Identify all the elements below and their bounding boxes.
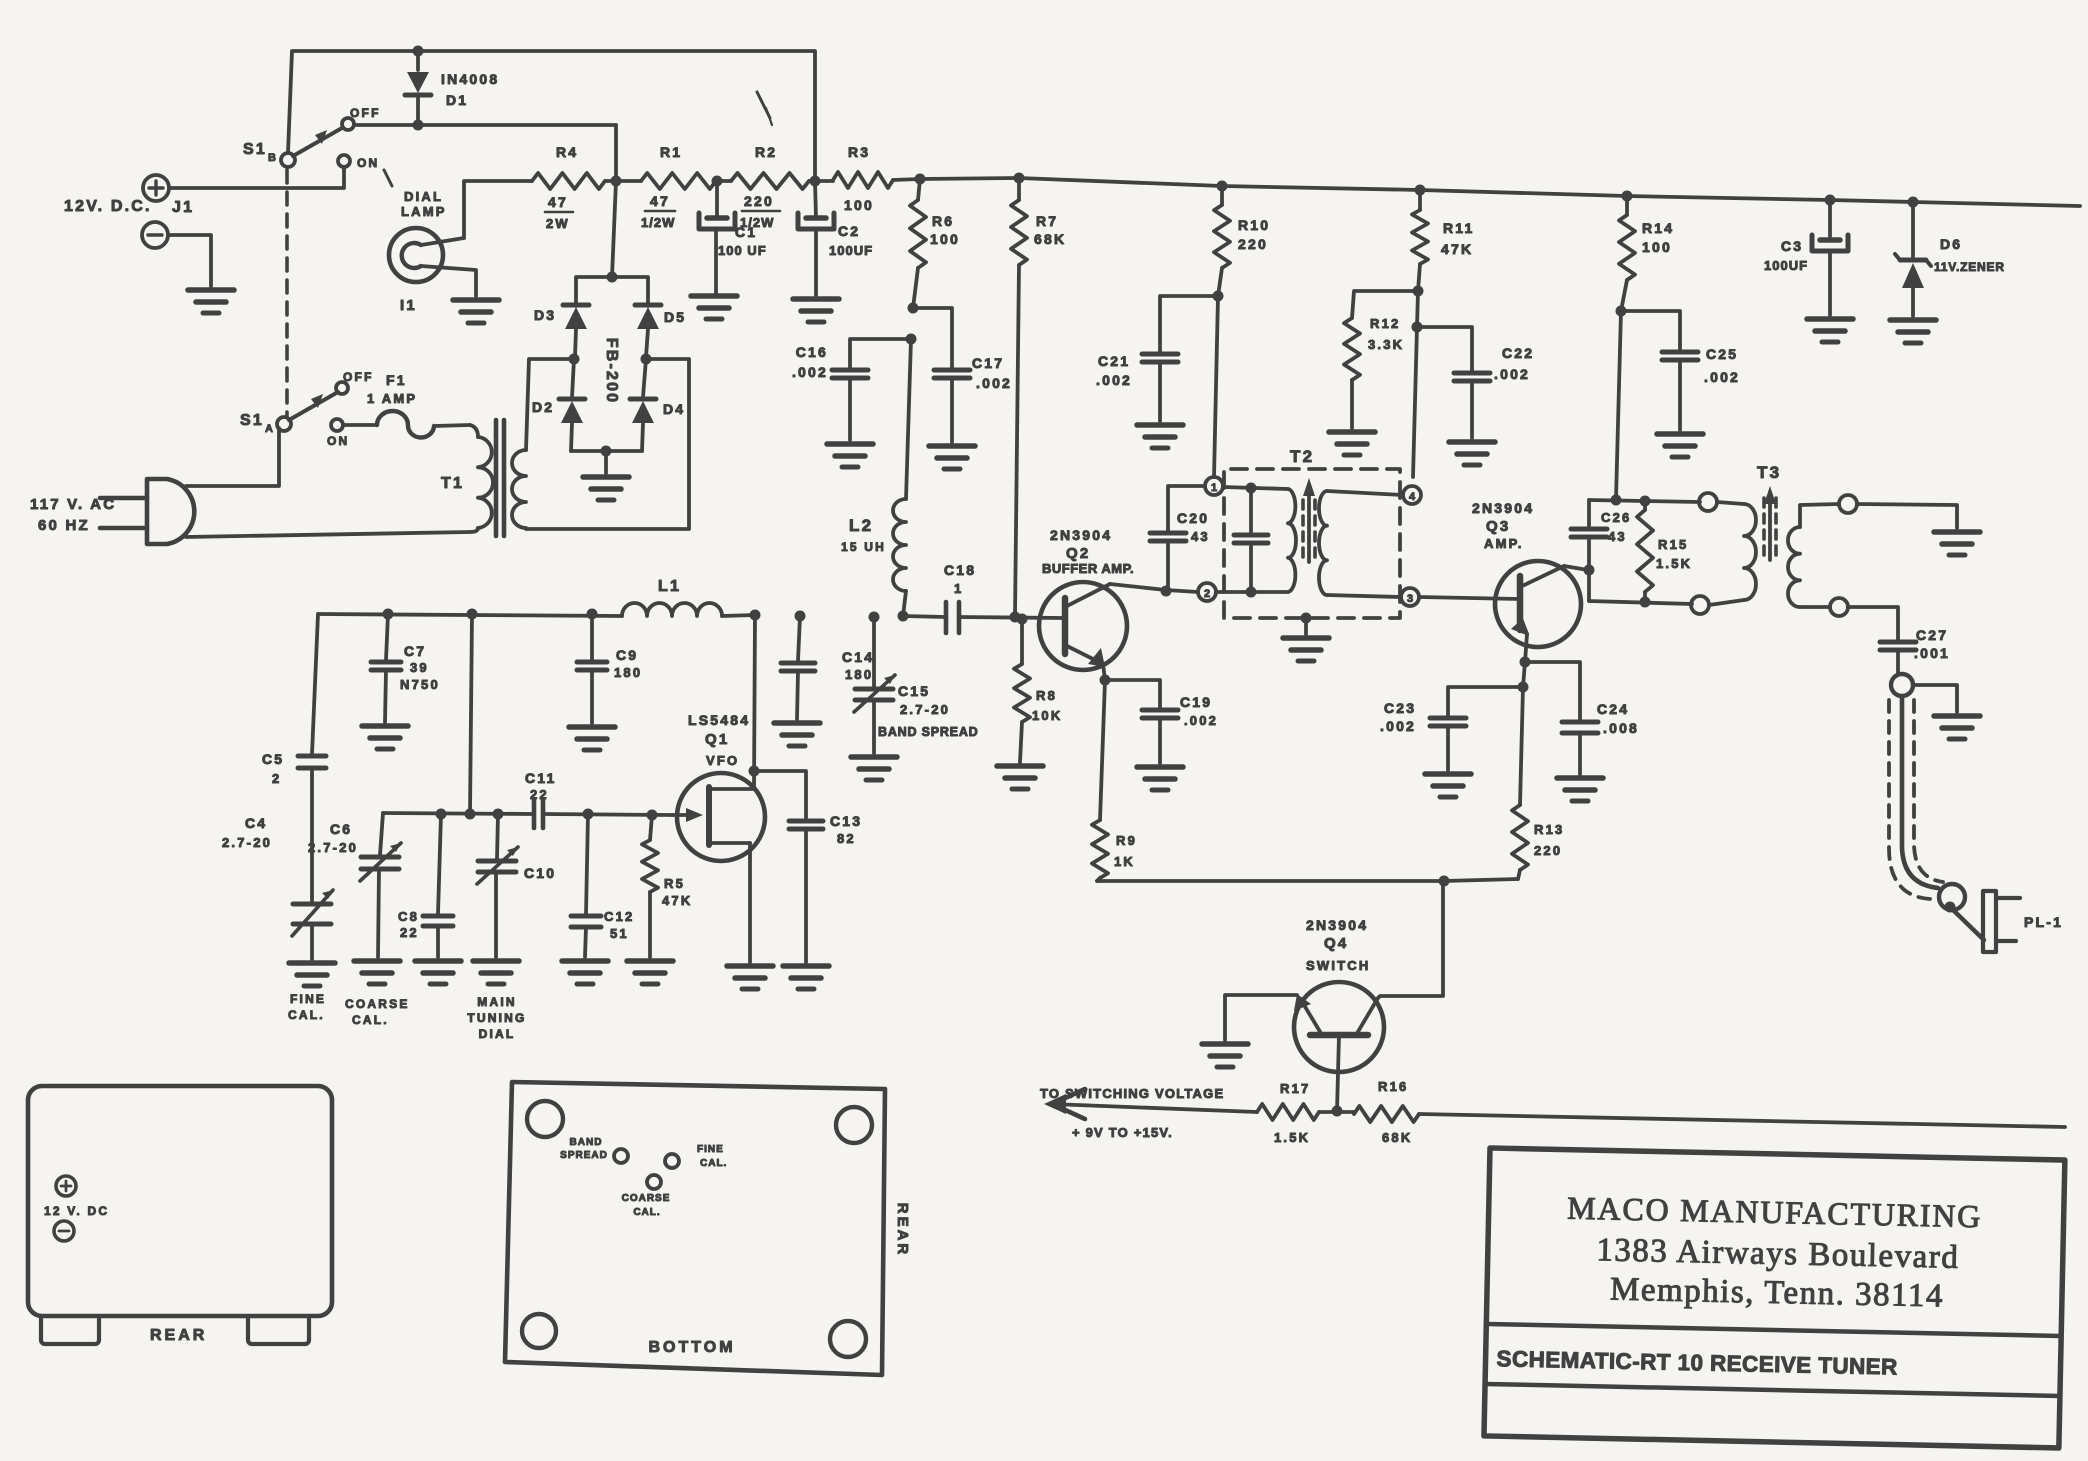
- svg-text:C11: C11: [525, 770, 557, 786]
- svg-text:C21: C21: [1098, 353, 1130, 369]
- svg-text:Q3: Q3: [1486, 518, 1510, 535]
- capacitor C1: [699, 181, 735, 293]
- label OFF (S1B): [350, 106, 381, 120]
- vfo gate bus wire: [383, 813, 533, 814]
- fine cal hole: [665, 1154, 679, 1168]
- R8 labels: [1032, 688, 1062, 723]
- ground coax shield: [1934, 716, 1980, 739]
- label ON (S1A): [327, 434, 349, 448]
- R2 labels: [740, 144, 780, 230]
- svg-text:D2: D2: [532, 399, 554, 415]
- svg-text:C7: C7: [404, 643, 426, 659]
- svg-text:Q4: Q4: [1324, 935, 1348, 952]
- bottom panel BOTTOM label: [648, 1339, 735, 1356]
- node C16 branch: [906, 334, 917, 345]
- svg-text:47: 47: [548, 194, 568, 210]
- Q4 labels: [1306, 917, 1370, 973]
- svg-text:T2: T2: [1290, 447, 1314, 466]
- capacitor C23: [1430, 718, 1466, 770]
- rear panel + terminal: [56, 1176, 76, 1196]
- svg-text:DIAL: DIAL: [479, 1027, 516, 1041]
- input jack J1 label 12V DC: [64, 198, 152, 215]
- T2 label: [1290, 447, 1314, 466]
- ground right of T3: [1934, 532, 1980, 555]
- resistor R17: [1257, 1104, 1337, 1120]
- svg-text:R8: R8: [1036, 688, 1057, 703]
- diode D5: [635, 305, 661, 357]
- wire J1+ to S1B ON: [169, 168, 344, 188]
- T3 primary top terminal: [1699, 493, 1717, 511]
- wire to C25: [1621, 311, 1680, 350]
- C24 labels: [1597, 701, 1639, 736]
- svg-text:OFF: OFF: [343, 370, 374, 384]
- diode D1 1N4008: [405, 46, 431, 131]
- D6 labels: [1934, 236, 2005, 274]
- svg-text:R12: R12: [1370, 316, 1400, 331]
- node L2 bottom: [898, 611, 909, 622]
- wire S1A ON to fuse: [343, 423, 376, 427]
- node R7: [1014, 173, 1025, 184]
- svg-text:R6: R6: [932, 213, 954, 229]
- coarse cal hole: [647, 1175, 661, 1189]
- svg-text:C1: C1: [735, 224, 757, 240]
- svg-text:SWITCH: SWITCH: [1306, 958, 1370, 973]
- C6 labels: [308, 821, 358, 855]
- plug PL-1 ring: [1939, 884, 1965, 913]
- R4 labels: [545, 144, 578, 231]
- svg-text:C12: C12: [604, 909, 634, 924]
- svg-text:MAIN: MAIN: [477, 995, 516, 1009]
- svg-text:.001: .001: [1914, 645, 1950, 661]
- svg-text:D5: D5: [664, 309, 686, 325]
- svg-text:60 HZ: 60 HZ: [38, 517, 90, 534]
- wire to C21: [1160, 296, 1218, 352]
- capacitor C20: [1150, 486, 1205, 592]
- svg-text:CAL.: CAL.: [700, 1158, 727, 1169]
- svg-text:R14: R14: [1642, 220, 1674, 236]
- svg-text:REAR: REAR: [150, 1327, 207, 1344]
- svg-text:11V.ZENER: 11V.ZENER: [1934, 260, 2005, 274]
- svg-text:+ 9V TO +15V.: + 9V TO +15V.: [1072, 1125, 1173, 1140]
- ground below T2: [1283, 638, 1329, 661]
- bottom panel hole bottom-right: [830, 1321, 866, 1357]
- FB-200 label: [603, 338, 620, 405]
- svg-text:100: 100: [930, 231, 960, 247]
- wire to C27: [1848, 607, 1898, 640]
- svg-text:2N3904: 2N3904: [1472, 500, 1534, 516]
- capacitor C3: [1812, 195, 1848, 316]
- svg-text:BUFFER AMP.: BUFFER AMP.: [1042, 561, 1134, 576]
- svg-text:AMP.: AMP.: [1484, 536, 1524, 551]
- resistor R13: [1512, 687, 1528, 879]
- J1 positive terminal: [143, 175, 169, 201]
- svg-text:1/2W: 1/2W: [641, 215, 675, 230]
- node Q3 collector join: [1584, 565, 1595, 576]
- ground below C16: [827, 444, 873, 467]
- coax center conductor: [1902, 696, 1938, 888]
- PL-1 connector: [1950, 891, 2020, 952]
- R5 labels: [662, 876, 692, 908]
- svg-text:2: 2: [1204, 588, 1210, 600]
- bottom panel hole top-right: [836, 1107, 872, 1143]
- Q2 labels: [1042, 527, 1134, 576]
- C11 labels: [525, 770, 557, 802]
- L1 label: [658, 578, 681, 595]
- resistor R5: [642, 815, 658, 957]
- capacitor C26: [1571, 500, 1607, 601]
- svg-text:2: 2: [272, 771, 281, 786]
- ground below C8: [415, 961, 461, 984]
- ground below C22: [1449, 442, 1495, 465]
- svg-text:82: 82: [837, 831, 856, 846]
- svg-text:R3: R3: [848, 144, 870, 160]
- wire R9 to R13 bottom: [1097, 879, 1518, 881]
- svg-text:100UF: 100UF: [829, 243, 873, 258]
- svg-text:Q2: Q2: [1066, 545, 1090, 562]
- R7 labels: [1034, 213, 1066, 247]
- D3 label: [534, 307, 556, 323]
- node C7 branch: [383, 609, 394, 620]
- svg-text:I1: I1: [400, 297, 417, 314]
- scan smudge: [757, 92, 772, 125]
- svg-text:R11: R11: [1443, 220, 1475, 236]
- label 117V AC 60Hz: [30, 496, 116, 534]
- capacitor C9: [577, 614, 607, 723]
- node C17 branch: [908, 303, 919, 314]
- L2 labels: [841, 516, 886, 554]
- T3 label: [1757, 463, 1781, 482]
- svg-text:T3: T3: [1757, 463, 1781, 482]
- T3 primary coil: [1709, 502, 1756, 605]
- title block: [1484, 1148, 2065, 1448]
- D1 labels: [441, 71, 499, 108]
- svg-text:R5: R5: [664, 876, 685, 891]
- wire to C16: [850, 339, 911, 368]
- svg-text:2.7-20: 2.7-20: [222, 835, 272, 850]
- svg-text:ON: ON: [327, 434, 349, 448]
- capacitor C17: [934, 370, 970, 442]
- R15 labels: [1656, 537, 1692, 571]
- wire to C22: [1417, 327, 1472, 371]
- rear panel REAR label: [150, 1327, 207, 1344]
- wire S1B OFF to D1 node: [354, 123, 616, 127]
- svg-text:ON: ON: [357, 156, 379, 170]
- ground below C25: [1657, 434, 1703, 457]
- band spread hole: [614, 1149, 628, 1163]
- svg-text:1: 1: [954, 581, 963, 596]
- C27 labels: [1914, 627, 1950, 661]
- C15 labels: [878, 683, 978, 739]
- coax shield ground tap: [1913, 685, 1957, 712]
- mechanical link dashed S1B-S1A: [285, 170, 289, 416]
- S1B label: [243, 141, 278, 164]
- T3 secondary top terminal: [1839, 495, 1857, 513]
- svg-text:S1: S1: [243, 141, 267, 158]
- R10 labels: [1238, 217, 1270, 252]
- svg-text:C13: C13: [830, 813, 862, 829]
- ground below R12: [1329, 432, 1375, 455]
- resistor R4: [532, 173, 616, 189]
- svg-text:R16: R16: [1378, 1079, 1408, 1094]
- svg-text:S1: S1: [240, 412, 264, 429]
- node bridge left ac: [569, 354, 580, 365]
- svg-text:COARSE: COARSE: [622, 1193, 671, 1204]
- node C9 branch: [587, 609, 598, 620]
- Q4 emitter wire to ground: [1225, 995, 1297, 1040]
- wire bridge top to R4/R1 junction: [612, 181, 616, 277]
- T3 secondary coil: [1788, 527, 1800, 607]
- svg-text:J1: J1: [172, 199, 194, 216]
- capacitor C12: [571, 814, 601, 957]
- capacitor C25: [1662, 352, 1698, 430]
- ground below C1: [691, 296, 737, 319]
- inductor L2 15UH: [893, 499, 906, 616]
- capacitor C18 series: [903, 602, 1063, 633]
- diode D2: [559, 359, 585, 451]
- node gate link: [465, 809, 476, 820]
- T3 secondary bottom wire: [1800, 605, 1830, 609]
- ground below Q1 source: [727, 966, 773, 989]
- R17 labels: [1274, 1081, 1310, 1145]
- svg-text:C23: C23: [1384, 700, 1416, 716]
- resistor R9: [1092, 680, 1108, 881]
- top rail wire: [288, 51, 815, 181]
- rear panel outline: [28, 1086, 332, 1344]
- svg-text:.002: .002: [792, 364, 828, 380]
- node C23 branch: [1518, 682, 1529, 693]
- T2 primary coil: [1288, 489, 1296, 592]
- band spread label: [560, 1137, 608, 1161]
- F1 labels: [367, 372, 417, 406]
- D4 label: [663, 401, 685, 417]
- svg-text:R10: R10: [1238, 217, 1270, 233]
- svg-text:3.3K: 3.3K: [1368, 337, 1404, 352]
- wire bus corner to C5: [312, 614, 318, 754]
- svg-text:220: 220: [744, 193, 774, 209]
- svg-text:2.7-20: 2.7-20: [308, 840, 358, 855]
- C13 labels: [830, 813, 862, 846]
- svg-text:CAL.: CAL.: [633, 1207, 660, 1218]
- T2 shield ground stub: [1301, 613, 1312, 635]
- svg-text:C4: C4: [245, 815, 267, 831]
- resistor R14: [1619, 191, 1635, 312]
- node C14: [795, 611, 806, 622]
- resistor R16: [1337, 1106, 1419, 1122]
- resistor R6: [910, 179, 926, 308]
- svg-text:CAL.: CAL.: [352, 1013, 389, 1027]
- svg-text:TUNING: TUNING: [467, 1011, 526, 1025]
- J1 label: [172, 199, 194, 216]
- node Q3 emitter: [1520, 657, 1531, 668]
- PL-1 label: [2024, 914, 2063, 930]
- wire to switching voltage arrow: [1044, 1089, 1257, 1119]
- svg-text:C19: C19: [1180, 694, 1212, 710]
- ground below C12: [562, 961, 608, 984]
- svg-text:R7: R7: [1036, 213, 1058, 229]
- T2 pin 2: [1198, 583, 1216, 601]
- wire plug bottom to T1: [186, 532, 470, 537]
- resistor R10: [1214, 181, 1230, 297]
- R16 labels: [1378, 1079, 1412, 1145]
- transformer T1 primary: [470, 425, 493, 532]
- Q4 base wire: [1337, 1035, 1339, 1111]
- R3 labels: [844, 144, 874, 213]
- node tank top: [1611, 495, 1622, 506]
- svg-text:100 UF: 100 UF: [718, 243, 767, 258]
- ground below C15: [851, 757, 897, 780]
- T2 secondary coil: [1319, 491, 1327, 595]
- fuse F1: [377, 411, 470, 438]
- Q2 emitter wire: [1103, 664, 1105, 680]
- ac plug 117V: [100, 479, 194, 544]
- capacitor C8: [423, 814, 453, 957]
- wire R6 branch down to L2: [906, 339, 911, 499]
- wire to ground right: [1857, 504, 1957, 528]
- D2 label: [532, 399, 554, 415]
- svg-text:C14: C14: [842, 649, 874, 665]
- R1 labels: [641, 144, 682, 230]
- capacitor C11 series: [534, 800, 672, 828]
- transistor Q2 2N3904 buffer: [1039, 582, 1127, 670]
- coax shield ring: [1891, 674, 1913, 696]
- node R5: [647, 810, 658, 821]
- node R12 branch: [1413, 286, 1424, 297]
- wire pin3 to Q3 base: [1419, 597, 1520, 599]
- svg-text:C8: C8: [398, 909, 419, 924]
- wire to C23: [1448, 687, 1523, 716]
- svg-text:C22: C22: [1502, 345, 1534, 361]
- svg-text:C16: C16: [796, 344, 828, 360]
- wire L1 to Q1 drain node: [722, 615, 755, 616]
- svg-text:2N3904: 2N3904: [1050, 527, 1112, 543]
- svg-text:4: 4: [1409, 491, 1416, 503]
- wire node to R4/R1 junction: [614, 125, 618, 181]
- ground below D6: [1890, 320, 1936, 343]
- resistor R1: [616, 173, 716, 189]
- svg-text:D4: D4: [663, 401, 685, 417]
- T3 secondary bottom terminal: [1830, 598, 1848, 616]
- C17 labels: [972, 355, 1012, 391]
- stray mark: [384, 170, 392, 186]
- node R4/R1: [611, 176, 622, 187]
- transistor Q1 LS5484 VFO: [672, 773, 765, 861]
- wire J1- to ground: [168, 235, 211, 286]
- D5 label: [664, 309, 686, 325]
- resistor R12: [1344, 318, 1360, 428]
- label FINE CAL: [288, 992, 326, 1022]
- Q3 emitter wire: [1525, 634, 1527, 662]
- svg-text:180: 180: [845, 667, 873, 682]
- svg-text:F1: F1: [386, 372, 407, 388]
- rear panel - terminal: [54, 1221, 74, 1241]
- svg-text:C5: C5: [262, 751, 284, 767]
- svg-text:DIAL: DIAL: [404, 189, 443, 204]
- dial lamp I1: [389, 228, 476, 296]
- svg-text:1 AMP: 1 AMP: [367, 391, 417, 406]
- S1A label: [240, 412, 275, 435]
- wire right ac to T1 secondary: [526, 359, 689, 529]
- C7 labels: [400, 643, 440, 692]
- ground below R5: [627, 961, 673, 984]
- svg-text:R9: R9: [1116, 833, 1137, 848]
- svg-text:68K: 68K: [1382, 1130, 1412, 1145]
- diode D4: [630, 359, 656, 451]
- ground below C3: [1807, 319, 1853, 342]
- label TO SWITCHING VOLTAGE: [1040, 1086, 1224, 1101]
- svg-text:Q1: Q1: [705, 731, 729, 748]
- capacitor C22: [1454, 373, 1490, 438]
- svg-text:C2: C2: [838, 223, 860, 239]
- R13 labels: [1534, 822, 1564, 858]
- svg-text:L2: L2: [849, 516, 873, 535]
- node C12: [583, 809, 594, 820]
- T2 dashed box: [1224, 469, 1400, 618]
- svg-text:43: 43: [1191, 529, 1210, 544]
- svg-text:PL-1: PL-1: [2024, 914, 2063, 930]
- capacitor C2: [798, 181, 834, 295]
- node C25 branch: [1616, 306, 1627, 317]
- node R17 R16 base: [1332, 1106, 1343, 1117]
- svg-text:FINE: FINE: [290, 992, 326, 1006]
- svg-text:12 V. DC: 12 V. DC: [44, 1204, 109, 1218]
- ground Q4 emitter: [1202, 1044, 1248, 1067]
- node C15: [869, 612, 880, 623]
- svg-text:.002: .002: [1494, 366, 1530, 382]
- C20 labels: [1177, 510, 1210, 544]
- svg-text:.002: .002: [1380, 718, 1416, 734]
- ground below J1: [188, 290, 234, 313]
- transistor Q3 2N3904 amp: [1495, 561, 1581, 647]
- svg-text:39: 39: [410, 660, 429, 675]
- R6 labels: [930, 213, 960, 247]
- wire left ac to T1 secondary: [526, 359, 574, 450]
- node C10: [493, 809, 504, 820]
- ground below C24: [1557, 778, 1603, 801]
- svg-text:D3: D3: [534, 307, 556, 323]
- T3 core: [1764, 486, 1776, 560]
- label MAIN TUNING DIAL: [467, 995, 526, 1041]
- svg-text:COARSE: COARSE: [345, 997, 410, 1011]
- ground below C6: [354, 961, 400, 984]
- svg-text:BAND SPREAD: BAND SPREAD: [878, 725, 978, 739]
- svg-text:1383 Airways Boulevard: 1383 Airways Boulevard: [1596, 1232, 1960, 1276]
- T2 internal cap: [1234, 488, 1268, 598]
- svg-text:10K: 10K: [1032, 708, 1062, 723]
- svg-text:C27: C27: [1916, 627, 1948, 643]
- svg-text:220: 220: [1238, 236, 1268, 252]
- node tank link: [467, 609, 478, 620]
- svg-text:100: 100: [844, 197, 874, 213]
- R9 labels: [1114, 833, 1137, 869]
- node Q2 emitter: [1100, 675, 1111, 686]
- T2 pin 4: [1403, 486, 1421, 504]
- svg-text:1.5K: 1.5K: [1656, 556, 1692, 571]
- node R6: [915, 174, 926, 185]
- capacitor C27: [1880, 642, 1916, 674]
- svg-text:43: 43: [1608, 529, 1627, 544]
- svg-text:47K: 47K: [1441, 241, 1473, 257]
- svg-text:.002: .002: [1184, 713, 1218, 728]
- C1 labels: [718, 224, 767, 258]
- T3 secondary top wire: [1800, 504, 1839, 527]
- Q3 collector wire: [1564, 566, 1588, 570]
- svg-text:C24: C24: [1597, 701, 1629, 717]
- wire bridge top right: [612, 277, 648, 303]
- T2 core: [1303, 478, 1315, 562]
- svg-text:.008: .008: [1603, 720, 1639, 736]
- T1 core: [496, 420, 504, 536]
- svg-text:B: B: [268, 152, 278, 164]
